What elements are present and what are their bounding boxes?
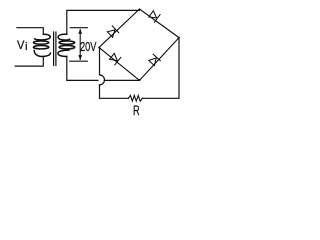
wire hop to bottom rail [100,85,129,98]
dimension arrowhead up [78,29,82,34]
wire primary bottom stub [15,56,43,66]
node bottom [139,79,141,81]
dimension arrow stem [79,30,81,60]
diode D1 upper-left [107,26,118,37]
node top [139,9,141,11]
diode D3 lower-left [110,53,121,64]
dimension arrowhead down [78,55,82,60]
wire primary top stub [17,28,43,35]
wire bottom rail to right node [142,38,179,99]
node right [178,37,180,39]
wire secondary bottom down [67,56,98,80]
wire left node down to hop [99,48,101,75]
bridge diamond edges [99,9,179,80]
diode D4 lower-right [149,54,161,65]
transformer secondary winding [58,34,75,56]
wire secondary top to bridge top [67,10,140,34]
wire hop over [100,75,105,85]
diode D2 upper-right [149,11,160,22]
transformer core [54,32,56,66]
node left [98,47,100,49]
dimension arrow 20V bottom bar [70,60,88,62]
wire to bridge bottom node [104,79,139,81]
resistor R [128,95,142,101]
dimension arrow 20V top bar [70,27,87,29]
label R [133,103,140,117]
label 20V [80,40,96,53]
label Vi [17,39,24,51]
transformer primary winding [33,34,50,56]
